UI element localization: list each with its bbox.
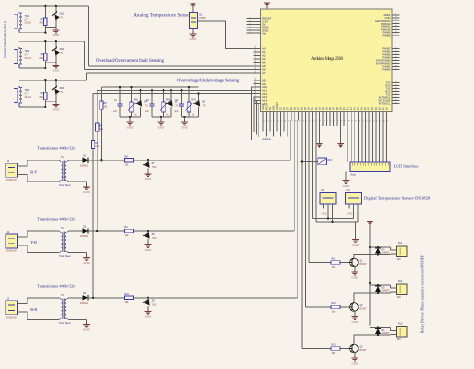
svg-text:67: 67 <box>309 120 311 122</box>
zener diode Z7 5V1 <box>143 160 157 171</box>
connector J1 <box>6 160 23 182</box>
svg-text:76: 76 <box>341 120 343 122</box>
ground transistor Q3 <box>351 353 359 365</box>
svg-text:1N4001: 1N4001 <box>80 235 89 238</box>
label Transformer 440v/12v section 1 <box>37 146 76 151</box>
svg-text:GND: GND <box>53 33 61 37</box>
svg-text:3: 3 <box>396 16 398 17</box>
svg-text:54: 54 <box>255 46 257 48</box>
node CT3 junctions <box>44 79 57 108</box>
svg-text:7: 7 <box>396 96 398 97</box>
svg-text:3: 3 <box>250 23 252 24</box>
transistor Q2 BC547 <box>350 302 368 311</box>
svg-text:7V: 7V <box>145 105 148 108</box>
wire phase line 3 riser to bottom pin <box>297 120 299 298</box>
ground transformer 1 <box>83 184 91 194</box>
svg-text:56: 56 <box>271 120 273 122</box>
svg-text:ZD3: ZD3 <box>60 87 65 90</box>
svg-text:83: 83 <box>366 120 368 122</box>
svg-text:Digital Temperature Sensor DS1: Digital Temperature Sensor DS1820 <box>364 195 431 200</box>
svg-text:56: 56 <box>255 53 257 55</box>
svg-text:7V: 7V <box>60 17 63 20</box>
svg-text:Overload/Overcurrent fault Sen: Overload/Overcurrent fault Sensing <box>96 59 165 64</box>
node sensing group 2 taps <box>151 89 172 91</box>
diode D6 flyback <box>370 328 391 336</box>
svg-text:59: 59 <box>255 63 257 65</box>
wire relay vcc rail <box>369 246 371 326</box>
svg-text:7V: 7V <box>60 91 63 94</box>
connector J3 <box>6 298 23 320</box>
svg-text:Tran Steel: Tran Steel <box>59 184 71 187</box>
svg-text:GND: GND <box>351 361 359 365</box>
potentiometer RV1 <box>128 87 139 117</box>
svg-text:LM35: LM35 <box>199 16 206 20</box>
zener diode ZD2 7V <box>51 41 64 63</box>
svg-text:87: 87 <box>380 120 382 122</box>
wire CT2 bottom rail <box>19 63 56 68</box>
transformer T1 440v/12v <box>59 156 71 187</box>
wire CT3 bottom rail <box>19 102 56 107</box>
svg-text:GND: GND <box>158 125 166 129</box>
wire CT1 top rail <box>19 5 89 7</box>
svg-text:88: 88 <box>384 120 386 122</box>
zener diode Z9 5V1 <box>143 298 157 309</box>
wire sensing bus to A11 <box>97 89 260 91</box>
wire CT2 top rail <box>19 40 84 42</box>
svg-text:1N4007: 1N4007 <box>382 291 391 293</box>
sensor U1 LM35 <box>190 12 206 28</box>
svg-text:GND: GND <box>347 213 353 216</box>
svg-text:Overvoltage/Undervoltage Sensi: Overvoltage/Undervoltage Sensing <box>177 78 240 83</box>
zener diode Z5 7V <box>166 90 179 117</box>
svg-text:68: 68 <box>255 98 257 100</box>
svg-text:R10: R10 <box>125 293 130 296</box>
svg-text:20:1A: 20:1A <box>25 96 32 99</box>
zener diode ZD1 7V <box>51 6 64 28</box>
svg-text:RL1: RL1 <box>398 242 403 245</box>
svg-text:63: 63 <box>255 81 257 83</box>
svg-text:GND: GND <box>83 261 91 265</box>
current transformer TR3 <box>14 86 31 107</box>
zener diode ZD3 7V <box>51 80 64 102</box>
svg-text:GND: GND <box>352 243 360 247</box>
MCU U2 Arduino Mega 2560 <box>261 9 393 112</box>
svg-text:GND: GND <box>190 37 198 41</box>
svg-text:B-R: B-R <box>30 307 37 312</box>
svg-text:Tran Steel: Tran Steel <box>59 322 71 325</box>
svg-text:20:1A: 20:1A <box>25 22 32 25</box>
wire secondary top 1 <box>68 159 82 161</box>
capacitor C2 <box>145 90 155 117</box>
svg-text:BC547: BC547 <box>360 264 368 266</box>
zener diode Z8 5V1 <box>143 231 157 242</box>
capacitor C1 <box>113 87 123 117</box>
ground transformer 3 <box>83 322 91 332</box>
svg-text:GND: GND <box>351 320 359 324</box>
ground sensing group 2 <box>158 117 166 129</box>
svg-text:77: 77 <box>345 120 347 122</box>
wire phase line 2 riser to bottom pin <box>293 120 295 231</box>
svg-text:2: 2 <box>396 81 398 82</box>
svg-text:CONN-H2: CONN-H2 <box>6 179 18 182</box>
ground sensing group 1 <box>127 117 135 129</box>
ground sensing group 3 <box>181 117 189 129</box>
svg-text:81: 81 <box>359 120 361 122</box>
wire DS1820 gnd pins <box>355 226 357 237</box>
wire DS1820 data bus 2 <box>316 209 358 224</box>
svg-text:4: 4 <box>396 87 398 88</box>
wire secondary top 3 <box>68 297 82 299</box>
svg-text:RV1: RV1 <box>134 100 139 102</box>
svg-text:Relay Driver: Phase sequence: Relay Driver: Phase sequence correction … <box>421 255 425 333</box>
svg-text:6: 6 <box>396 59 398 60</box>
svg-text:57: 57 <box>255 56 257 58</box>
svg-text:67: 67 <box>255 94 257 96</box>
svg-text:Tran Steel: Tran Steel <box>59 255 71 258</box>
svg-text:70: 70 <box>320 120 322 122</box>
power VCC relay rail <box>367 222 373 248</box>
svg-text:R13: R13 <box>332 345 337 347</box>
wire secondary top 2 <box>68 230 82 232</box>
svg-text:GND: GND <box>145 315 153 319</box>
ground transformer 2 <box>83 255 91 265</box>
wire secondary bottom 3 to ground <box>68 319 86 322</box>
svg-text:R-Y: R-Y <box>30 169 37 174</box>
ground transistor Q1 <box>351 267 359 279</box>
svg-text:BC547: BC547 <box>360 350 368 352</box>
svg-text:55: 55 <box>267 120 269 122</box>
preset RV4 lcd contrast <box>301 158 333 165</box>
svg-text:A7: A7 <box>262 71 266 75</box>
power VCC arduino <box>264 3 270 9</box>
wire DS1820 data bus 1 <box>312 209 353 220</box>
svg-text:GND: GND <box>83 190 91 194</box>
svg-text:6: 6 <box>396 93 398 94</box>
svg-text:Analog Temperature Sensor: Analog Temperature Sensor <box>133 14 191 19</box>
wire LCD data bus verticals <box>348 120 387 162</box>
svg-text:12V: 12V <box>397 338 402 341</box>
arduino left pins A8-A15 <box>254 78 268 106</box>
svg-text:3: 3 <box>396 50 398 51</box>
svg-text:5: 5 <box>396 90 398 91</box>
svg-text:1uF: 1uF <box>174 111 179 113</box>
zener diode Z6 7V <box>193 94 206 117</box>
svg-text:RV4: RV4 <box>328 160 333 162</box>
wire relay 2 coil bottom to collector <box>354 284 391 303</box>
wire primary loop 3 <box>22 298 59 320</box>
svg-text:GND: GND <box>83 328 91 332</box>
svg-text:2R2: 2R2 <box>39 23 44 25</box>
power VCC temp sensor <box>190 3 196 12</box>
zener diode Z4 7V <box>135 90 148 117</box>
svg-text:4: 4 <box>250 26 252 27</box>
svg-text:63: 63 <box>295 120 297 122</box>
wire primary loop 2 <box>22 231 59 253</box>
ground CT1 <box>53 27 61 37</box>
svg-text:R12: R12 <box>332 303 337 305</box>
wire A10 A13-A15 drop bundle <box>251 87 260 140</box>
svg-text:66: 66 <box>306 120 308 122</box>
svg-text:84: 84 <box>370 120 372 122</box>
wire relay 3 coil bottom to collector <box>354 326 391 344</box>
wire secondary bottom 1 to ground <box>68 182 86 185</box>
svg-text:5: 5 <box>396 22 398 23</box>
relay RL2 <box>391 280 408 299</box>
label Digital Temperature Sensor DS1820 <box>364 195 431 200</box>
ground LCD <box>343 172 351 188</box>
resistor R9 10k <box>125 226 134 237</box>
svg-text:4: 4 <box>396 53 398 54</box>
svg-text:6: 6 <box>250 32 252 33</box>
svg-text:1N4001: 1N4001 <box>80 302 89 305</box>
svg-text:Arduino Mega 2560: Arduino Mega 2560 <box>311 57 344 62</box>
svg-text:PWM0: PWM0 <box>382 68 391 72</box>
wire short stubs 17-21 <box>323 120 344 126</box>
diode D4 flyback <box>370 247 391 255</box>
wire CT3 top rail <box>19 79 87 81</box>
connector J2 <box>6 231 23 253</box>
wire phase sense riser C <box>92 94 94 298</box>
svg-text:CONN-H2: CONN-H2 <box>6 250 18 253</box>
svg-text:62: 62 <box>292 120 294 122</box>
transformer T3 440v/12v <box>59 294 71 325</box>
capacitor C3 <box>174 90 184 117</box>
wire dangling bottom stubs <box>263 120 288 141</box>
diode D2 1N4001 <box>80 225 89 238</box>
svg-text:8: 8 <box>396 99 398 100</box>
node sensing group 1 taps <box>119 86 142 92</box>
svg-text:U1: U1 <box>199 12 203 16</box>
svg-text:79: 79 <box>352 120 354 122</box>
wire phase line 1 <box>88 159 291 161</box>
svg-text:64: 64 <box>299 120 301 122</box>
svg-text:60: 60 <box>255 67 257 69</box>
svg-text:12V: 12V <box>397 258 402 261</box>
label LCD Interface <box>394 164 419 169</box>
svg-text:GND: GND <box>127 125 135 129</box>
resistor R7 <box>91 140 99 148</box>
svg-text:RV3: RV3 <box>191 100 196 102</box>
svg-text:5V1: 5V1 <box>152 237 157 240</box>
svg-text:78: 78 <box>348 120 350 122</box>
svg-text:71: 71 <box>324 120 326 122</box>
label Current Transformers 20:1A <box>3 20 7 58</box>
potentiometer RV3 <box>186 87 197 117</box>
transistor Q3 BC547 <box>350 344 368 353</box>
resistor R8 10k <box>125 155 134 166</box>
sensor U3 DS1820 <box>320 189 336 215</box>
svg-text:2: 2 <box>396 47 398 48</box>
svg-text:1: 1 <box>250 17 252 18</box>
svg-text:RL2: RL2 <box>398 280 403 283</box>
wire sensing bus to A12 <box>93 93 260 95</box>
svg-text:8: 8 <box>396 31 398 32</box>
svg-text:62: 62 <box>255 78 257 80</box>
svg-text:LCD Interface: LCD Interface <box>394 164 419 169</box>
svg-text:GND: GND <box>53 108 61 112</box>
svg-text:64: 64 <box>255 84 257 86</box>
resistor R13 base <box>302 345 350 356</box>
svg-text:Vin: Vin <box>262 31 267 35</box>
svg-text:54: 54 <box>264 120 266 122</box>
arduino right pins pwm group1 <box>375 13 400 37</box>
svg-text:85: 85 <box>373 120 375 122</box>
label Transformer 440v/12v section 3 <box>37 283 76 288</box>
svg-text:Current Transformers 20:1A: Current Transformers 20:1A <box>3 20 7 58</box>
diode D5 flyback <box>370 285 391 293</box>
svg-text:2R2: 2R2 <box>39 97 44 99</box>
transformer T2 440v/12v <box>59 227 71 258</box>
svg-text:Y-B: Y-B <box>30 240 37 245</box>
svg-text:7V: 7V <box>60 52 63 55</box>
svg-text:75: 75 <box>338 120 340 122</box>
ground CT3 <box>53 102 61 112</box>
svg-text:INT0/SCL: INT0/SCL <box>379 102 391 106</box>
svg-text:PWM8: PWM8 <box>382 33 391 37</box>
svg-text:74: 74 <box>334 120 336 122</box>
wire phase line 3 <box>88 297 298 299</box>
wire phase line 1 riser to bottom pin <box>290 120 292 160</box>
wire relay 1 coil bottom to collector <box>354 246 391 258</box>
wire secondary bottom 2 to ground <box>68 253 86 256</box>
svg-text:58: 58 <box>278 120 280 122</box>
svg-text:1N4001: 1N4001 <box>80 164 89 167</box>
relay RL3 <box>391 323 408 342</box>
power VCC flag 2 <box>337 120 343 148</box>
wire phase line 2 <box>88 230 294 232</box>
svg-text:1uF: 1uF <box>113 111 118 113</box>
svg-text:7V: 7V <box>203 105 206 108</box>
ground phase line 2 <box>145 242 153 252</box>
relay RL1 <box>391 242 408 261</box>
ground CT2 <box>53 63 61 73</box>
svg-text:5V1: 5V1 <box>152 304 157 307</box>
wire relay base risers <box>302 120 309 349</box>
svg-text:5: 5 <box>250 29 252 30</box>
svg-text:6: 6 <box>396 25 398 26</box>
node CT1 junctions <box>44 5 57 34</box>
svg-text:9: 9 <box>396 102 398 103</box>
label Transformer 440v/12v section 2 <box>37 217 76 222</box>
svg-text:61: 61 <box>255 70 257 72</box>
sensor U4 DS1820 <box>346 189 362 215</box>
svg-text:61: 61 <box>288 120 290 122</box>
svg-text:7: 7 <box>396 28 398 29</box>
svg-text:80: 80 <box>355 120 357 122</box>
svg-text:GND: GND <box>145 248 153 252</box>
svg-text:GND: GND <box>322 213 328 216</box>
wire phase sense riser A <box>100 87 102 160</box>
arduino right pins serial group <box>378 81 399 106</box>
LCD interface connector <box>350 162 390 177</box>
svg-text:GND: GND <box>53 69 61 73</box>
wire DS1820 risers <box>312 120 316 222</box>
wire sensing bus top rail <box>101 86 198 88</box>
svg-text:9: 9 <box>396 34 398 35</box>
svg-text:65: 65 <box>302 120 304 122</box>
svg-text:Transformer 440v/12v: Transformer 440v/12v <box>37 146 76 151</box>
resistor R10 10k <box>125 293 134 304</box>
svg-text:2R2: 2R2 <box>39 58 44 60</box>
svg-text:66: 66 <box>255 91 257 93</box>
current transformer TR1 <box>14 12 31 33</box>
ground DS1820 <box>352 222 360 247</box>
transistor Q1 BC547 <box>350 258 368 267</box>
svg-text:9: 9 <box>396 68 398 69</box>
svg-text:GND: GND <box>351 275 359 279</box>
label phase B-R <box>30 307 37 312</box>
label phase Y-B <box>30 240 37 245</box>
svg-text:60: 60 <box>285 120 287 122</box>
arduino left pins A0-A7 <box>254 46 266 75</box>
svg-text:69: 69 <box>317 120 319 122</box>
svg-text:57: 57 <box>274 120 276 122</box>
ground transistor Q2 <box>351 311 359 323</box>
svg-text:5V1: 5V1 <box>152 166 157 169</box>
svg-text:1uF: 1uF <box>145 111 150 113</box>
arduino left pins power group <box>247 17 272 36</box>
svg-text:7V: 7V <box>175 105 178 108</box>
wire temp sensor to A0 <box>197 21 260 49</box>
wire CT1 to Arduino A5 <box>89 6 261 66</box>
resistor R1 burden <box>39 6 47 28</box>
ground temp sensor <box>190 29 198 42</box>
svg-text:5: 5 <box>396 56 398 57</box>
label Overload/Overcurrent fault Sensing <box>96 59 165 64</box>
svg-text:GND: GND <box>181 125 189 129</box>
svg-text:GND: GND <box>145 177 153 181</box>
label phase R-Y <box>30 169 37 174</box>
power VCC flag 1 <box>316 120 322 148</box>
node CT2 junctions <box>44 40 57 69</box>
potentiometer RV2 <box>160 90 171 117</box>
wire CT1 bottom rail <box>19 27 56 32</box>
wire sensing group 2 bottom rail <box>152 116 171 118</box>
svg-text:4: 4 <box>396 19 398 20</box>
svg-text:65: 65 <box>255 88 257 90</box>
resistor R11 base <box>309 259 350 270</box>
svg-text:58: 58 <box>255 60 257 62</box>
wire primary loop 1 <box>22 160 59 182</box>
svg-text:CONN-H2: CONN-H2 <box>6 316 18 319</box>
current transformer TR2 <box>14 47 31 68</box>
svg-text:7: 7 <box>396 62 398 63</box>
wire sensing group 1 bottom rail <box>120 116 141 118</box>
svg-text:BC547: BC547 <box>360 308 368 310</box>
svg-text:2: 2 <box>396 13 398 14</box>
ground phase line 3 <box>145 309 153 319</box>
label Relay Driver <box>421 255 425 333</box>
resistor R12 base <box>305 303 349 314</box>
svg-text:55: 55 <box>255 49 257 51</box>
wire CT3 to Arduino A7 <box>87 73 261 80</box>
wire phase sense riser B <box>96 90 98 231</box>
svg-text:73: 73 <box>331 120 333 122</box>
label Analog Temperature Sensor <box>133 14 191 19</box>
diode D3 1N4001 <box>80 292 89 305</box>
svg-text:59: 59 <box>281 120 283 122</box>
svg-text:68: 68 <box>313 120 315 122</box>
svg-text:82: 82 <box>362 120 364 122</box>
svg-text:20:1A: 20:1A <box>25 57 32 60</box>
svg-text:72: 72 <box>327 120 329 122</box>
svg-text:ZD1: ZD1 <box>60 13 65 16</box>
svg-text:Transformer 440v/12v: Transformer 440v/12v <box>37 217 76 222</box>
wire CT2 to Arduino A6 <box>84 41 260 69</box>
svg-text:3: 3 <box>396 84 398 85</box>
label Overvoltage/Undervoltage Sensing <box>177 78 240 83</box>
svg-text:86: 86 <box>377 120 379 122</box>
